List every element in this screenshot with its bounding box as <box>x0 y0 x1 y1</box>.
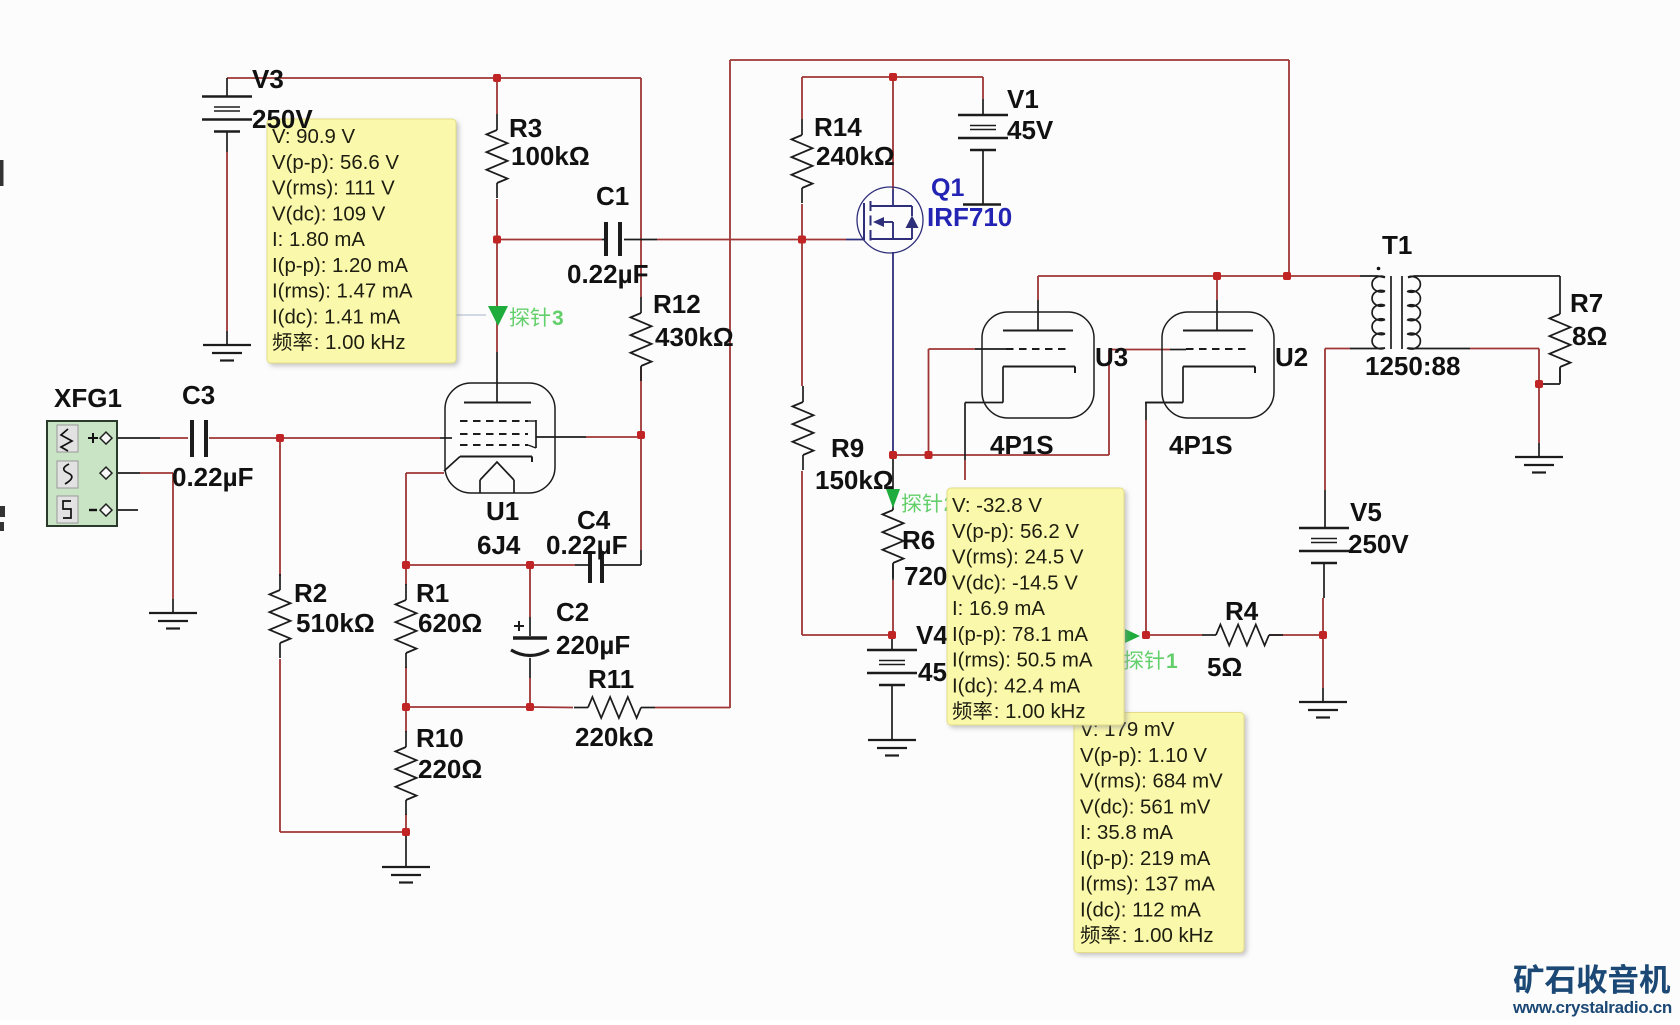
svg-text:620Ω: 620Ω <box>418 608 482 638</box>
svg-text:I(rms): 1.47 mA: I(rms): 1.47 mA <box>272 281 413 303</box>
wire C2 bottom lead <box>529 658 531 707</box>
wire R11 right to feedback <box>655 707 730 709</box>
wire R3 top <box>496 78 498 114</box>
svg-text:I(p-p): 1.20 mA: I(p-p): 1.20 mA <box>272 255 408 277</box>
wire R7 bottom <box>1541 368 1560 384</box>
svg-text:220µF: 220µF <box>556 630 630 660</box>
ground V3 <box>203 331 251 361</box>
junction <box>889 73 897 81</box>
svg-text:U2: U2 <box>1275 342 1308 372</box>
resistor R11 <box>574 664 655 752</box>
junction <box>637 431 645 439</box>
svg-text:I(dc): 112 mA: I(dc): 112 mA <box>1080 899 1201 921</box>
wire cathode node to C4 <box>406 564 588 566</box>
svg-text:U1: U1 <box>486 496 519 526</box>
svg-text:250V: 250V <box>252 104 313 134</box>
junction <box>888 631 896 639</box>
svg-text:R14: R14 <box>814 112 862 142</box>
wire C1 to gate Q1 <box>624 239 864 241</box>
svg-text:I(dc): 42.4 mA: I(dc): 42.4 mA <box>952 675 1080 697</box>
svg-text:V(rms): 24.5 V: V(rms): 24.5 V <box>952 547 1084 569</box>
svg-text:45V: 45V <box>1007 115 1054 145</box>
svg-text:R1: R1 <box>416 578 449 608</box>
probe 3 <box>456 306 564 330</box>
resistor R6 <box>883 494 969 591</box>
svg-text:C1: C1 <box>596 181 629 211</box>
wire Q1 drain <box>892 77 894 206</box>
wire R12 top lead <box>640 78 642 297</box>
svg-text:240kΩ: 240kΩ <box>816 141 895 171</box>
svg-text:V(dc): -14.5 V: V(dc): -14.5 V <box>952 572 1078 594</box>
svg-text:V(dc): 561 mV: V(dc): 561 mV <box>1080 796 1211 818</box>
svg-text:220kΩ: 220kΩ <box>575 722 654 752</box>
wire R1 bottom node <box>406 706 573 709</box>
vacuum tube U1 6J4 <box>444 383 555 560</box>
wire anode to U1 <box>496 240 498 403</box>
svg-text:V1: V1 <box>1007 84 1039 114</box>
svg-text:I: 35.8 mA: I: 35.8 mA <box>1080 822 1173 844</box>
capacitor C2 electrolytic <box>511 597 630 660</box>
junction <box>798 236 806 244</box>
svg-text:I(dc): 1.41 mA: I(dc): 1.41 mA <box>272 306 400 328</box>
svg-text:100kΩ: 100kΩ <box>511 141 590 171</box>
wire R1 top lead <box>405 565 407 585</box>
ground XFG1 <box>149 599 197 629</box>
svg-text:R4: R4 <box>1225 596 1259 626</box>
svg-text:1250:88: 1250:88 <box>1365 351 1460 381</box>
svg-text:V(p-p): 56.2 V: V(p-p): 56.2 V <box>952 521 1079 543</box>
svg-text:: 1.00 kHz: : 1.00 kHz <box>994 701 1086 723</box>
edge fragment <box>0 160 4 186</box>
resistor R14 <box>792 112 895 203</box>
svg-text:Q1: Q1 <box>931 174 964 202</box>
ground T1 secondary <box>1515 443 1563 473</box>
wire R4 right to V5 node <box>1269 634 1323 636</box>
svg-text:I(rms): 137 mA: I(rms): 137 mA <box>1080 874 1215 896</box>
wire R12 bottom <box>640 367 642 435</box>
svg-text:R9: R9 <box>831 433 864 463</box>
junction <box>402 561 410 569</box>
wire R1 bottom lead <box>405 667 407 707</box>
svg-text:0.22µF: 0.22µF <box>172 462 253 492</box>
svg-text:www.crystalradio.cn: www.crystalradio.cn <box>1512 998 1672 1017</box>
svg-text:V(rms): 111 V: V(rms): 111 V <box>272 178 395 200</box>
junction <box>402 703 410 711</box>
svg-text:3: 3 <box>552 307 564 330</box>
svg-text:I: 16.9 mA: I: 16.9 mA <box>952 598 1045 620</box>
wire R2 bottom to ground node <box>280 659 406 832</box>
edge fragment <box>0 506 5 531</box>
svg-text:R7: R7 <box>1570 288 1603 318</box>
svg-text:V5: V5 <box>1350 497 1382 527</box>
wire V5 node to ground <box>1322 635 1324 688</box>
vacuum tube U2 4P1S <box>1145 312 1308 460</box>
measurement box probe1 <box>1074 713 1244 953</box>
svg-text:I: 1.80 mA: I: 1.80 mA <box>272 229 365 251</box>
svg-text:I(p-p): 78.1 mA: I(p-p): 78.1 mA <box>952 624 1088 646</box>
wire R9 bottom <box>802 471 892 635</box>
svg-text:I(p-p): 219 mA: I(p-p): 219 mA <box>1080 848 1211 870</box>
svg-text:: 1.00 kHz: : 1.00 kHz <box>1122 925 1214 947</box>
svg-text:V(p-p): 56.6 V: V(p-p): 56.6 V <box>272 152 399 174</box>
wire U3 cathode drop <box>964 403 966 481</box>
svg-text:R11: R11 <box>588 664 634 694</box>
battery V3 <box>202 78 252 331</box>
wire T1 secondary bottom <box>1414 348 1539 350</box>
wire Q1 source <box>892 252 894 506</box>
capacitor C4 <box>546 505 627 583</box>
svg-text:IRF710: IRF710 <box>927 202 1012 232</box>
junction <box>925 451 933 459</box>
resistor R4 <box>1202 596 1283 682</box>
resistor R1 <box>396 578 483 668</box>
ground R10 node <box>382 832 430 883</box>
junction <box>526 561 534 569</box>
wire U1 cathode <box>406 473 444 565</box>
wire grid node down to C4 <box>604 435 641 565</box>
watermark crystalradio logo <box>1512 964 1672 1017</box>
svg-text:C3: C3 <box>182 380 215 410</box>
svg-text:R6: R6 <box>902 525 935 555</box>
resistor R7 <box>1550 288 1608 382</box>
probe 2 <box>886 489 956 516</box>
svg-text:510kΩ: 510kΩ <box>296 608 375 638</box>
svg-text:5Ω: 5Ω <box>1207 652 1242 682</box>
wire U1 grid right to R12 <box>536 436 641 438</box>
svg-text:8Ω: 8Ω <box>1572 321 1607 351</box>
svg-text:430kΩ: 430kΩ <box>655 322 734 352</box>
battery V3 labels <box>252 64 313 134</box>
wire gate node to R9 <box>801 240 803 387</box>
wire rail R14 to V1 <box>802 76 983 78</box>
svg-text:V: -32.8 V: V: -32.8 V <box>952 495 1042 517</box>
resistor R10 <box>396 723 483 815</box>
svg-text:V(dc): 109 V: V(dc): 109 V <box>272 203 386 225</box>
function generator XFG1 <box>47 383 122 526</box>
wire R14 top <box>801 77 803 119</box>
wire XFG- stub <box>112 509 138 511</box>
resistor R12 <box>631 289 734 381</box>
wire C3 to grid node <box>209 437 280 439</box>
measurement box probe2 <box>947 488 1124 725</box>
wire V1 top <box>982 77 984 99</box>
wire V5 bottom <box>1322 598 1324 635</box>
junction <box>1142 631 1150 639</box>
wire top rail right (feedback rail) <box>730 59 1289 61</box>
wire U2 anode lead <box>1216 276 1218 331</box>
svg-text:0.22µF: 0.22µF <box>567 259 648 289</box>
svg-text:XFG1: XFG1 <box>54 383 122 413</box>
junction <box>1283 272 1291 280</box>
wire anode node C1 <box>497 199 602 240</box>
junction <box>1319 631 1327 639</box>
measurement box probe3 <box>267 119 456 363</box>
transistor Q1 IRF710 MOSFET <box>857 174 1012 253</box>
battery V4 <box>867 620 965 726</box>
junction <box>402 828 410 836</box>
junction <box>276 434 284 442</box>
svg-text:1: 1 <box>1166 650 1178 673</box>
resistor R3 <box>487 113 590 198</box>
svg-text:I(rms): 50.5 mA: I(rms): 50.5 mA <box>952 650 1093 672</box>
svg-text:V3: V3 <box>252 64 284 94</box>
wire U3 grid riser <box>929 349 1008 455</box>
svg-text:R12: R12 <box>653 289 701 319</box>
wire T1 corner down <box>1288 60 1290 276</box>
probe 1 <box>1124 629 1178 673</box>
battery V5 <box>1299 497 1409 598</box>
svg-text:220Ω: 220Ω <box>418 754 482 784</box>
capacitor C1 <box>567 181 648 289</box>
wire V3+ top rail to R12 <box>227 77 641 79</box>
wire source node right <box>893 454 1109 456</box>
vacuum tube U3 4P1S <box>965 312 1128 460</box>
wire anode rail U3 U2 T1 <box>1038 275 1378 277</box>
svg-text:V(p-p): 1.10 V: V(p-p): 1.10 V <box>1080 745 1207 767</box>
wire T1 primary bottom to V5 <box>1325 349 1378 506</box>
battery V1 <box>958 84 1054 205</box>
wire C2 top lead <box>529 565 531 636</box>
wire T1 secondary top to R7 <box>1414 276 1560 298</box>
svg-text:R2: R2 <box>294 578 327 608</box>
svg-text:6J4: 6J4 <box>477 530 521 560</box>
junction <box>1535 380 1543 388</box>
resistor R2 <box>270 574 375 658</box>
wire U3 anode lead <box>1037 276 1039 331</box>
wire R2 top <box>279 438 281 576</box>
transformer T1 <box>1365 230 1460 381</box>
svg-text:C2: C2 <box>556 597 589 627</box>
wire grid node to U1 <box>280 437 452 439</box>
svg-text:T1: T1 <box>1382 230 1412 260</box>
wire R4 left <box>1146 634 1202 636</box>
wire R14 bottom to gate node <box>801 204 803 240</box>
wire R10 leads <box>405 707 407 832</box>
ground V5 node <box>1299 688 1347 718</box>
wire U2 grid riser <box>1109 350 1186 456</box>
junction <box>526 703 534 711</box>
svg-text:4P1S: 4P1S <box>990 430 1054 460</box>
wire XFG common <box>112 473 173 599</box>
svg-text:0.22µF: 0.22µF <box>546 530 627 560</box>
svg-text:4P1S: 4P1S <box>1169 430 1233 460</box>
svg-text:: 1.00 kHz: : 1.00 kHz <box>314 332 406 354</box>
svg-text:U3: U3 <box>1095 342 1128 372</box>
wire long vertical feedback <box>729 60 731 708</box>
junction <box>1213 272 1221 280</box>
wire R6 bottom to V4 <box>892 564 894 635</box>
wire XFG+ to C3 <box>112 437 188 439</box>
ground V4 <box>868 726 916 756</box>
svg-text:R10: R10 <box>416 723 464 753</box>
svg-text:R3: R3 <box>509 113 542 143</box>
junction <box>889 451 897 459</box>
svg-text:250V: 250V <box>1348 529 1409 559</box>
junction <box>493 236 501 244</box>
resistor R9 <box>793 386 894 495</box>
wire U2 cathode to R4 <box>1146 403 1183 636</box>
svg-text:V4: V4 <box>916 620 948 650</box>
capacitor C3 <box>172 380 253 492</box>
svg-text:V(rms): 684 mV: V(rms): 684 mV <box>1080 771 1223 793</box>
wire secondary ground drop <box>1538 349 1540 444</box>
junction <box>493 74 501 82</box>
svg-text:150kΩ: 150kΩ <box>815 465 894 495</box>
